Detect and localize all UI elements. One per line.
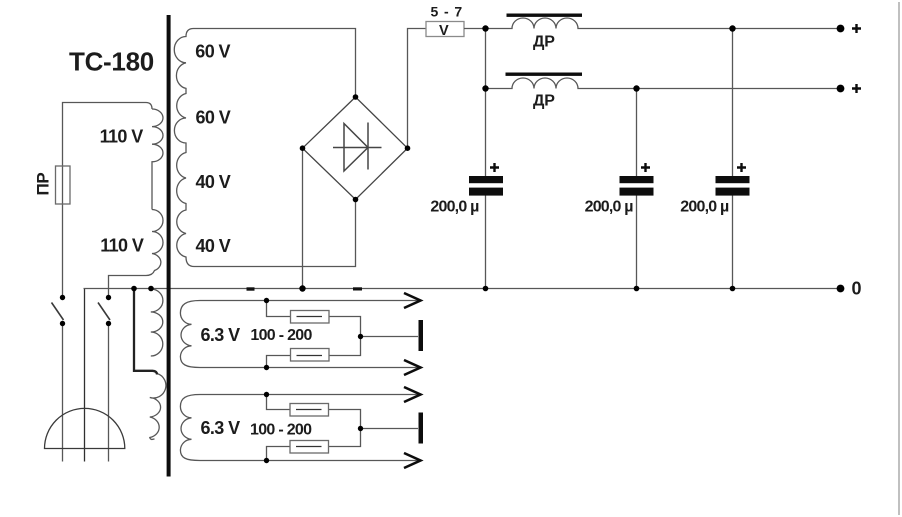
svg-text:60 V: 60 V — [196, 108, 231, 128]
svg-text:40 V: 40 V — [196, 172, 231, 192]
svg-text:V: V — [439, 23, 449, 39]
svg-text:110 V: 110 V — [100, 127, 144, 147]
svg-text:ПР: ПР — [34, 173, 53, 196]
svg-text:110 V: 110 V — [100, 236, 144, 256]
svg-text:100 - 200: 100 - 200 — [250, 327, 312, 344]
svg-text:0: 0 — [852, 279, 862, 299]
svg-text:ДР: ДР — [533, 93, 555, 110]
svg-text:200,0 µ: 200,0 µ — [430, 199, 479, 216]
svg-text:200,0 µ: 200,0 µ — [680, 199, 729, 216]
svg-text:6.3 V: 6.3 V — [201, 418, 241, 438]
svg-text:100 - 200: 100 - 200 — [250, 421, 312, 438]
svg-text:ДР: ДР — [533, 34, 555, 51]
svg-text:40 V: 40 V — [196, 236, 231, 256]
svg-text:200,0 µ: 200,0 µ — [585, 199, 634, 216]
svg-text:60 V: 60 V — [195, 42, 230, 62]
svg-text:6.3 V: 6.3 V — [201, 325, 241, 345]
svg-text:ТС-180: ТС-180 — [69, 46, 154, 76]
svg-text:5 - 7: 5 - 7 — [431, 3, 464, 19]
